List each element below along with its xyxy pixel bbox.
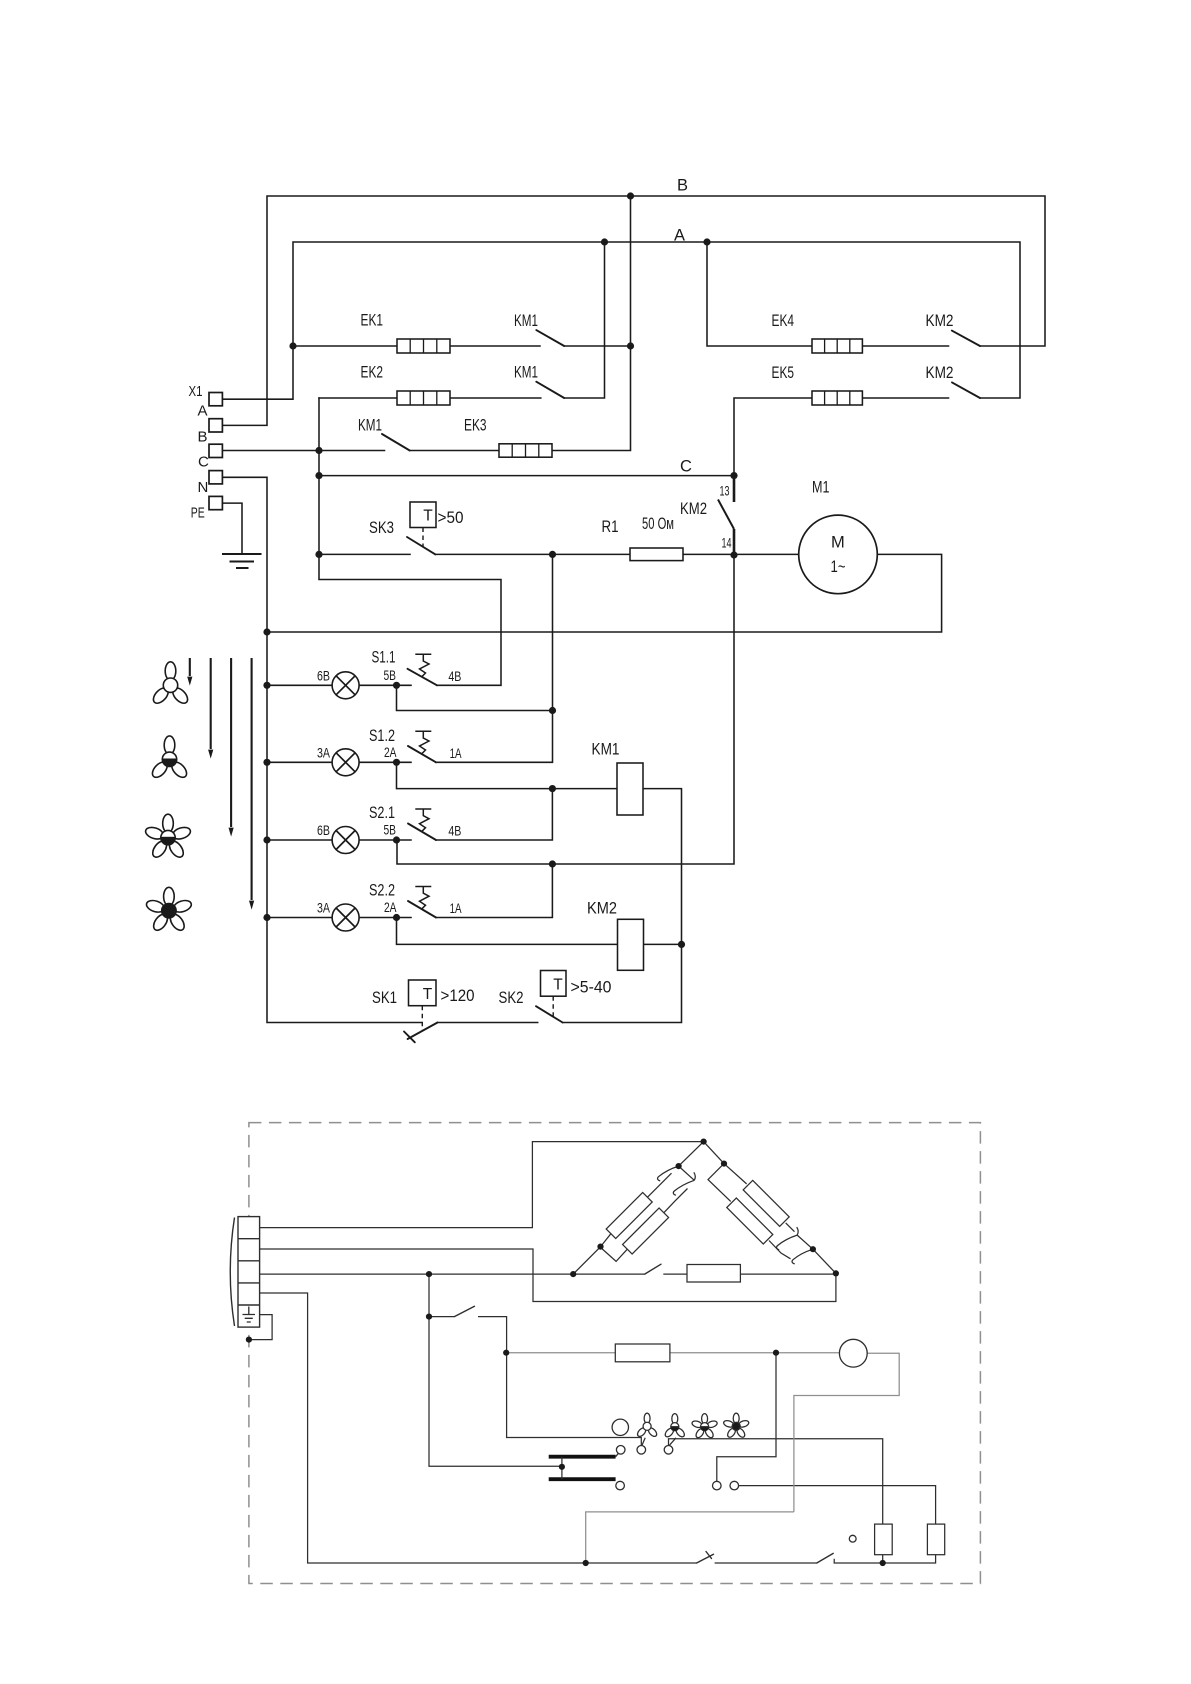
svg-text:SK1: SK1 bbox=[372, 989, 397, 1007]
svg-text:S1.2: S1.2 bbox=[369, 727, 395, 745]
svg-text:4B: 4B bbox=[448, 824, 461, 839]
svg-text:EK4: EK4 bbox=[772, 312, 795, 330]
svg-text:N: N bbox=[198, 479, 209, 496]
svg-text:A: A bbox=[198, 403, 208, 420]
svg-text:KM1: KM1 bbox=[514, 364, 538, 382]
svg-text:S2.2: S2.2 bbox=[369, 882, 395, 900]
svg-text:1A: 1A bbox=[450, 901, 462, 916]
svg-text:14: 14 bbox=[722, 536, 732, 551]
svg-text:EK1: EK1 bbox=[361, 312, 384, 330]
svg-text:3A: 3A bbox=[317, 745, 330, 760]
svg-text:SK2: SK2 bbox=[499, 989, 524, 1007]
svg-text:M1: M1 bbox=[812, 479, 830, 497]
svg-text:A: A bbox=[674, 227, 685, 245]
svg-text:1~: 1~ bbox=[831, 558, 846, 576]
svg-text:>120: >120 bbox=[441, 987, 475, 1005]
svg-text:EK2: EK2 bbox=[361, 364, 384, 382]
svg-text:EK5: EK5 bbox=[772, 364, 795, 382]
svg-text:5B: 5B bbox=[384, 823, 397, 838]
svg-text:3A: 3A bbox=[317, 901, 330, 916]
svg-text:5B: 5B bbox=[384, 668, 397, 683]
svg-text:PE: PE bbox=[191, 504, 205, 521]
svg-text:KM2: KM2 bbox=[680, 500, 707, 518]
svg-text:X1: X1 bbox=[189, 383, 203, 400]
svg-text:2A: 2A bbox=[384, 745, 397, 760]
svg-text:B: B bbox=[198, 429, 208, 446]
svg-text:C: C bbox=[680, 458, 692, 476]
svg-text:KM2: KM2 bbox=[926, 364, 954, 382]
svg-text:>50: >50 bbox=[438, 509, 464, 527]
svg-text:KM2: KM2 bbox=[926, 312, 954, 330]
svg-text:KM2: KM2 bbox=[587, 900, 617, 918]
svg-text:4B: 4B bbox=[448, 669, 461, 684]
svg-text:2A: 2A bbox=[384, 900, 397, 915]
svg-text:1A: 1A bbox=[450, 746, 462, 761]
svg-text:>5-40: >5-40 bbox=[571, 979, 612, 997]
svg-text:KM1: KM1 bbox=[592, 741, 620, 759]
svg-text:13: 13 bbox=[720, 484, 730, 499]
svg-text:KM1: KM1 bbox=[358, 417, 382, 435]
svg-text:T: T bbox=[423, 508, 433, 525]
svg-text:M: M bbox=[831, 534, 845, 552]
svg-text:S2.1: S2.1 bbox=[369, 804, 395, 822]
svg-text:C: C bbox=[198, 454, 209, 471]
svg-text:R1: R1 bbox=[602, 518, 619, 536]
svg-text:B: B bbox=[677, 177, 688, 195]
svg-text:T: T bbox=[423, 986, 433, 1003]
svg-text:50 Ом: 50 Ом bbox=[642, 515, 674, 533]
svg-text:KM1: KM1 bbox=[514, 312, 538, 330]
svg-text:T: T bbox=[553, 977, 563, 994]
svg-text:SK3: SK3 bbox=[369, 519, 394, 537]
svg-text:6B: 6B bbox=[317, 668, 330, 683]
svg-text:S1.1: S1.1 bbox=[372, 649, 396, 667]
svg-text:EK3: EK3 bbox=[464, 417, 487, 435]
svg-text:6B: 6B bbox=[317, 823, 330, 838]
